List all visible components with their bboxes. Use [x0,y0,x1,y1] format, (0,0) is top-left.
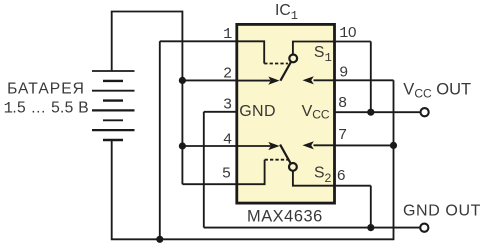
switch S2 blade [280,145,291,164]
wire pin 10 internal to pole [293,42,335,54]
wire pin 7 stub [335,144,394,146]
switch S1 blade [280,62,291,81]
terminal GND OUT [420,224,428,232]
wire pin 2 stub [182,79,236,81]
wire pin 8 to VCC OUT terminal [335,111,420,113]
wire pin 1 internal control [237,41,264,63]
wire pin 10 vertical to pin 8 [370,42,372,113]
wire pin 10 stub [335,41,371,43]
switch S2 internals [237,145,335,186]
wire pin 5 internal control [237,160,265,185]
wire pin 6 stub [335,185,371,187]
dashed control line S1 [264,63,288,65]
arrow throw pin 2 (S1 left contact) [268,77,279,85]
svg-text:5: 5 [222,165,230,182]
svg-text:GND OUT: GND OUT [403,203,481,220]
wire pin 4 stub [182,145,236,147]
junction dot pin 6 / GND OUT net [367,224,374,231]
junction dot pin 4 / battery+ [179,142,186,149]
wire pin 4 internal [237,145,271,147]
switch S2 pole circle [289,163,297,171]
junction dot bottom wire / pin 1 [156,236,163,243]
svg-text:7: 7 [338,126,346,143]
wire GND OUT horizontal [204,227,420,229]
svg-text:VCC OUT: VCC OUT [403,81,471,101]
svg-text:8: 8 [338,94,346,111]
arrow throw pin 7 (S2 right contact) [303,141,314,149]
svg-text:БАТАРЕЯ: БАТАРЕЯ [7,80,85,97]
svg-text:3: 3 [223,95,231,112]
wire pin 9 internal [314,79,335,81]
svg-text:10: 10 [339,24,356,42]
dashed control line S2 [265,159,288,161]
wire pin 3 vertical down [203,112,205,228]
wire pin 1 vertical [159,41,161,239]
terminal VCC OUT [421,108,429,116]
wire pin 5 stub [182,183,236,185]
battery BT1 [92,71,135,140]
wire pin 7 internal [314,144,335,146]
svg-text:4: 4 [223,131,231,148]
wire pin 9 stub [335,79,394,81]
svg-text:9: 9 [340,63,348,80]
svg-text:6: 6 [337,167,345,184]
IC U1 body MAX4636 [237,24,335,203]
wire top horizontal (battery+ to bus) [111,11,183,13]
wire pin 6 internal from pole [293,171,335,185]
wire pin 1 stub [160,40,237,42]
wire battery top lead [111,12,113,72]
wire bottom horizontal (battery-) [111,238,394,240]
arrow throw pin 9 (S1 right contact) [303,76,314,84]
wire right vertical battery- to pins 7,9 [393,80,395,240]
wire battery+ vertical bus to pins 2,4,5 [181,11,183,185]
wire pin 2 internal [237,80,271,82]
svg-text:GND: GND [239,103,276,120]
junction dot pin 8 / VCC net [367,109,374,116]
wire pin 6 vertical down [370,186,372,228]
arrow throw pin 4 (S2 left contact) [268,142,279,150]
svg-text:2: 2 [223,65,231,82]
svg-text:MAX4636: MAX4636 [247,207,323,225]
wire pin 3 stub [204,111,237,113]
junction dot pin 2 / battery+ [179,77,186,84]
junction dot pin 7 / battery- net [390,142,397,149]
switch S1 pole circle [289,55,297,63]
svg-text:1: 1 [223,25,232,43]
svg-text:1.5 … 5.5 В: 1.5 … 5.5 В [4,100,89,118]
wire battery bottom lead [111,140,113,239]
switch S1 internals [237,41,335,80]
